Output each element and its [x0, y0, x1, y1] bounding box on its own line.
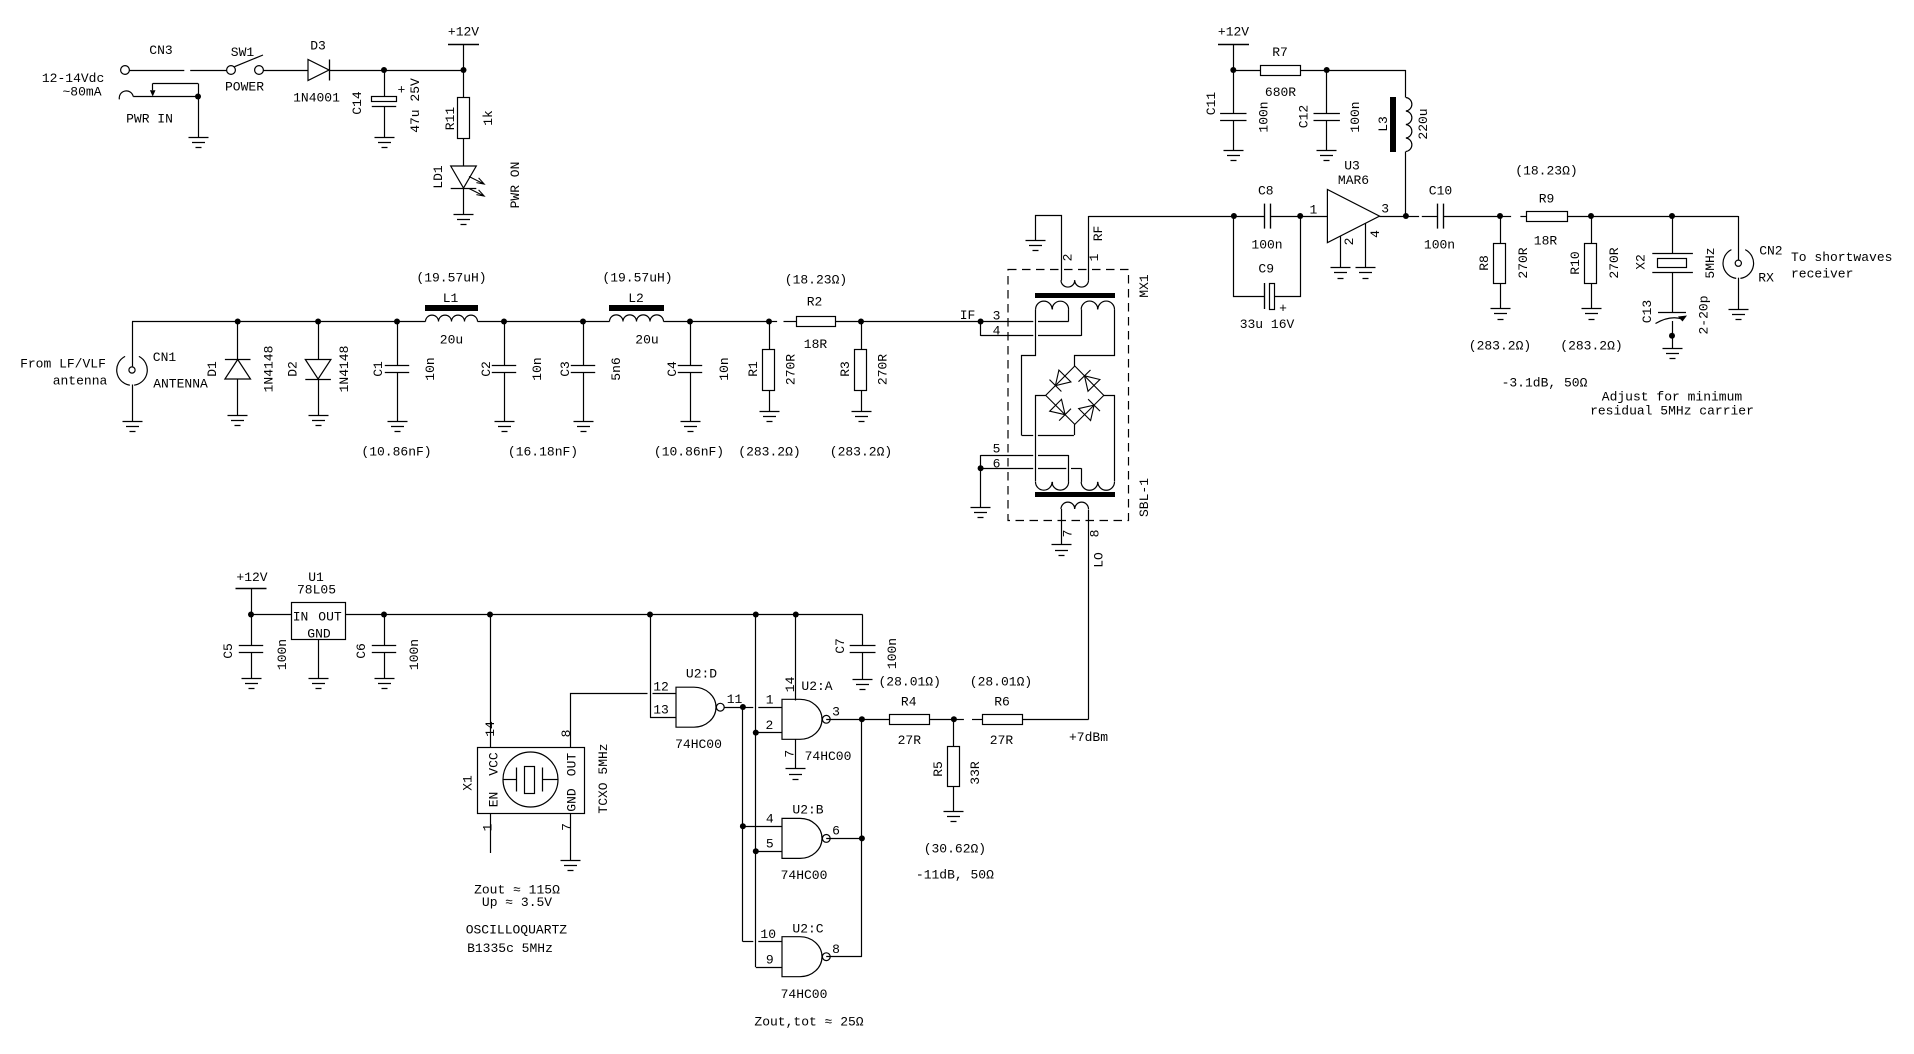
wire C8 to U3 input — [1271, 216, 1300, 218]
junction C1 — [394, 319, 400, 325]
svg-text:(283.2Ω): (283.2Ω) — [830, 445, 892, 460]
svg-text:SW1: SW1 — [231, 45, 255, 60]
svg-text:R10: R10 — [1568, 251, 1583, 274]
wire D2 to C1 — [318, 321, 397, 323]
capacitor C12 100n — [1326, 70, 1328, 114]
junction C12 tap — [1324, 67, 1330, 73]
wire X2 node to CN2 — [1672, 216, 1738, 218]
capacitor C7 100n — [862, 615, 864, 646]
svg-text:20u: 20u — [635, 333, 658, 348]
svg-text:100n: 100n — [1251, 238, 1282, 253]
svg-text:1: 1 — [766, 693, 774, 708]
ground under C1 — [388, 422, 408, 432]
junction R3 — [858, 319, 864, 325]
svg-text:8: 8 — [1088, 530, 1103, 538]
svg-text:1N4148: 1N4148 — [337, 346, 352, 393]
svg-text:1N4148: 1N4148 — [262, 346, 277, 393]
ground under C5 — [242, 679, 262, 689]
svg-text:270R: 270R — [784, 354, 799, 385]
svg-text:14: 14 — [483, 721, 498, 737]
LED LD1 PWR ON — [451, 166, 477, 188]
resistor R11 1k — [463, 70, 465, 98]
svg-text:2: 2 — [765, 718, 773, 733]
connector CN1 ANTENNA — [134, 356, 147, 385]
junction output bus mid — [859, 835, 865, 841]
ground at mixer pin 7 — [1052, 545, 1072, 556]
wire C3 to L2 — [583, 321, 610, 323]
resistor R9 18R — [1527, 212, 1568, 222]
svg-text:GND: GND — [565, 788, 580, 812]
svg-text:X1: X1 — [461, 775, 476, 791]
inductor L1 20u — [426, 315, 478, 321]
wire top-left winding left terminal down to bottom ring corner — [1022, 310, 1036, 436]
wire ring right corner to bottom-right winding — [1104, 396, 1115, 482]
junction C2 — [501, 319, 507, 325]
svg-text:+12V: +12V — [448, 25, 479, 40]
svg-text:270R: 270R — [876, 354, 891, 385]
mixer top secondary right winding — [1081, 301, 1114, 309]
wire R7 to L3 corner — [1301, 70, 1327, 72]
resistor R1 270R — [769, 322, 771, 350]
wire CN2 to ground — [1738, 278, 1740, 310]
regulator U1 78L05 — [292, 603, 346, 640]
junction +12V/C11/R7 — [1230, 67, 1236, 73]
svg-text:-3.1dB, 50Ω: -3.1dB, 50Ω — [1502, 376, 1588, 391]
junction R10 — [1588, 213, 1594, 219]
wire D3 to +12V node — [329, 70, 464, 72]
svg-text:10n: 10n — [423, 357, 438, 380]
svg-text:33R: 33R — [968, 761, 983, 785]
ground under C4 — [681, 422, 701, 432]
capacitor C8 100n — [1264, 204, 1266, 229]
ground under CN1 — [123, 422, 143, 432]
wire rail down to U2 inputs 2/5/9 — [755, 615, 757, 733]
diode D1 1N4148 — [237, 322, 239, 360]
wire R3 to IF node — [861, 321, 981, 323]
svg-text:SBL-1: SBL-1 — [1137, 478, 1152, 517]
svg-text:C9: C9 — [1258, 262, 1274, 277]
svg-text:PWR IN: PWR IN — [126, 112, 173, 127]
svg-text:~80mA: ~80mA — [62, 85, 101, 100]
wire L1 to C2 — [478, 321, 505, 323]
svg-text:R5: R5 — [931, 761, 946, 777]
wire R10 node to X2 node — [1591, 216, 1672, 218]
U1 GND pin to ground — [318, 639, 320, 678]
junction X1 VCC — [487, 612, 493, 618]
capacitor C5 100n — [251, 615, 253, 646]
svg-text:1N4001: 1N4001 — [293, 91, 340, 106]
svg-text:2-20p: 2-20p — [1697, 295, 1712, 334]
svg-text:220u: 220u — [1416, 108, 1431, 139]
wire U1 OUT rail — [345, 614, 863, 616]
resistor R7 680R — [1233, 70, 1260, 72]
svg-text:-11dB, 50Ω: -11dB, 50Ω — [916, 868, 994, 883]
wire R5 node to R6 — [954, 719, 964, 721]
junction R5 — [951, 716, 957, 722]
mixer transformer core bar (bottom) — [1035, 492, 1115, 497]
svg-text:L1: L1 — [443, 291, 459, 306]
svg-text:antenna: antenna — [53, 374, 108, 389]
ground under R3 — [852, 412, 872, 422]
capacitor C6 100n — [384, 615, 386, 646]
wire U2:B output 6 — [826, 838, 862, 840]
junction jack sleeve to ground — [195, 94, 201, 100]
svg-text:C2: C2 — [479, 361, 494, 377]
wire CN1 to IF line — [132, 322, 134, 367]
svg-text:R11: R11 — [443, 107, 458, 131]
svg-text:3: 3 — [1381, 202, 1389, 217]
svg-text:5: 5 — [766, 837, 774, 852]
svg-text:12: 12 — [653, 680, 669, 695]
wire U2:C output 8 to bus — [826, 956, 862, 958]
svg-text:C14: C14 — [350, 91, 365, 115]
resistor R3 270R — [861, 322, 863, 350]
junction C9 left — [1231, 213, 1237, 219]
junction C4 — [687, 319, 693, 325]
svg-text:(283.2Ω): (283.2Ω) — [738, 445, 800, 460]
wire ring left corner to bottom-left winding — [1036, 396, 1046, 482]
wire CN3 to SW1 — [130, 70, 185, 72]
svg-text:5MHz: 5MHz — [1703, 247, 1718, 278]
svg-text:C4: C4 — [665, 361, 680, 377]
svg-text:+7dBm: +7dBm — [1069, 730, 1108, 745]
svg-text:R7: R7 — [1272, 45, 1288, 60]
svg-text:OUT: OUT — [565, 753, 580, 777]
svg-text:27R: 27R — [898, 733, 922, 748]
svg-text:C11: C11 — [1204, 92, 1219, 116]
ground under D1 — [228, 416, 248, 426]
X1 pin 7 to ground — [570, 813, 572, 860]
svg-text:(28.01Ω): (28.01Ω) — [970, 675, 1032, 690]
inductor L3 220u — [1405, 70, 1407, 98]
svg-text:100n: 100n — [275, 639, 290, 670]
svg-text:4: 4 — [993, 324, 1001, 339]
svg-text:10n: 10n — [530, 357, 545, 380]
svg-text:100n: 100n — [1424, 238, 1455, 253]
svg-text:20u: 20u — [440, 333, 463, 348]
oscillator X1 TCXO 5MHz — [478, 748, 585, 814]
resistor R6 27R — [983, 715, 1023, 725]
ground under X1 — [561, 861, 581, 871]
svg-text:X2: X2 — [1634, 254, 1649, 270]
ground under C13 — [1663, 349, 1683, 359]
svg-text:L2: L2 — [628, 291, 644, 306]
diode ring wires — [1046, 366, 1104, 424]
svg-text:OSCILLOQUARTZ: OSCILLOQUARTZ — [466, 923, 568, 938]
svg-text:7: 7 — [783, 750, 798, 758]
svg-text:RF: RF — [1091, 226, 1106, 242]
svg-text:1: 1 — [1309, 203, 1317, 218]
svg-text:C1: C1 — [371, 361, 386, 377]
svg-text:(28.01Ω): (28.01Ω) — [878, 675, 940, 690]
svg-text:D2: D2 — [286, 361, 301, 377]
U3 pin 4 to ground — [1365, 223, 1367, 268]
ground under CN2 — [1729, 310, 1749, 320]
connector CN2 RX — [1738, 216, 1740, 260]
junction R11 node — [461, 67, 467, 73]
mixer LO winding — [1061, 502, 1089, 509]
power +12V symbol (bottom) — [236, 588, 267, 590]
junction U2 pin13 feed — [647, 612, 653, 618]
wire R2 to R3 — [835, 321, 861, 323]
wire ring bottom corner down — [1074, 424, 1076, 435]
wire jack to ground — [198, 97, 200, 138]
svg-text:C3: C3 — [558, 361, 573, 377]
svg-text:10: 10 — [760, 927, 776, 942]
ground at mixer pins 5/6 — [971, 508, 991, 518]
junction pins 5/6 to ground — [978, 465, 984, 471]
inductor L2 20u — [610, 315, 664, 322]
wire C10 to R8 node — [1444, 216, 1500, 218]
svg-text:8: 8 — [832, 942, 840, 957]
svg-text:18R: 18R — [804, 337, 828, 352]
wire top-right winding right terminal to ring top corner — [1075, 310, 1115, 367]
wire R9 to R10 node — [1567, 216, 1591, 218]
wire R1 to R2 — [769, 321, 777, 323]
wire R4 to R5 node — [930, 719, 954, 721]
svg-text:1k: 1k — [481, 110, 496, 126]
wire bus to R4 — [862, 719, 890, 721]
svg-text:OUT: OUT — [318, 610, 342, 625]
ground under C11 — [1224, 151, 1244, 161]
wire SW1 to D3 — [264, 70, 309, 72]
svg-text:C5: C5 — [221, 643, 236, 659]
X1 pin 1 EN stub — [490, 813, 492, 853]
wire rail-feed down to U2:B pin 5 — [755, 733, 757, 852]
svg-text:MAR6: MAR6 — [1338, 173, 1369, 188]
svg-text:78L05: 78L05 — [297, 583, 336, 598]
svg-text:(18.23Ω): (18.23Ω) — [785, 273, 847, 288]
svg-text:R9: R9 — [1539, 192, 1555, 207]
ground under PWR IN — [189, 138, 209, 148]
svg-text:Up ≈ 3.5V: Up ≈ 3.5V — [482, 895, 552, 910]
capacitor C9 33u 16V (electrolytic bypass) — [1234, 217, 1265, 297]
svg-text:100n: 100n — [1257, 101, 1272, 132]
gate U2:B 74HC00 — [782, 818, 822, 858]
svg-text:R1: R1 — [746, 361, 761, 377]
svg-text:47u 25V: 47u 25V — [408, 78, 423, 133]
ground under C7 — [853, 680, 873, 690]
resistor R10 270R — [1591, 216, 1593, 243]
junction X2 — [1669, 213, 1675, 219]
svg-text:270R: 270R — [1607, 247, 1622, 278]
svg-text:10n: 10n — [717, 357, 732, 380]
svg-text:TCXO 5MHz: TCXO 5MHz — [596, 743, 611, 813]
junction C5 tap — [248, 612, 254, 618]
power +12V symbol (right) — [1218, 44, 1249, 46]
svg-text:U2:D: U2:D — [686, 667, 717, 682]
wire C4 to R1 — [690, 321, 769, 323]
svg-text:+12V: +12V — [1218, 25, 1249, 40]
ground under R1 — [760, 412, 780, 422]
svg-text:(19.57uH): (19.57uH) — [416, 271, 486, 286]
capacitor C11 100n — [1233, 70, 1235, 114]
ground under R10 — [1582, 309, 1602, 320]
ring diode bottom-right — [1079, 405, 1094, 420]
svg-text:100n: 100n — [885, 638, 900, 669]
svg-text:(283.2Ω): (283.2Ω) — [1560, 339, 1622, 354]
mixer input transformer primary winding — [1061, 280, 1089, 287]
svg-text:D3: D3 — [310, 39, 326, 54]
capacitor C14 47u 25V (electrolytic) — [384, 70, 386, 97]
wire top-left winding right terminal to pin 3 — [1068, 309, 1070, 321]
wire rail down to U2:A pin 14 — [795, 615, 797, 701]
svg-text:(10.86nF): (10.86nF) — [361, 445, 431, 460]
svg-text:B1335c 5MHz: B1335c 5MHz — [467, 941, 553, 956]
junction D1 — [235, 319, 241, 325]
mixer top secondary left winding — [1036, 301, 1069, 309]
svg-text:C12: C12 — [1297, 105, 1312, 128]
svg-text:U2:B: U2:B — [792, 803, 823, 818]
svg-text:L3: L3 — [1376, 116, 1391, 132]
svg-text:+: + — [1279, 301, 1287, 316]
svg-text:R6: R6 — [994, 695, 1010, 710]
junction C3 — [580, 319, 586, 325]
svg-text:ANTENNA: ANTENNA — [153, 377, 208, 392]
junction below C13 — [1669, 333, 1675, 339]
svg-text:Zout,tot ≈ 25Ω: Zout,tot ≈ 25Ω — [754, 1015, 863, 1030]
svg-text:(10.86nF): (10.86nF) — [654, 445, 724, 460]
svg-text:2: 2 — [1342, 238, 1357, 246]
svg-text:4: 4 — [766, 812, 774, 827]
svg-text:VCC: VCC — [487, 752, 502, 776]
svg-text:6: 6 — [832, 824, 840, 839]
wire rail to X1 VCC pin 14 — [490, 615, 492, 748]
junction R1 — [766, 319, 772, 325]
connector CN3 terminal (top pin) — [121, 66, 130, 75]
svg-text:(30.62Ω): (30.62Ω) — [924, 842, 986, 857]
U3 pin 2 to ground — [1340, 236, 1342, 268]
wire CN1 to ground — [132, 385, 134, 422]
resistor R5 33R — [953, 719, 955, 746]
ground at mixer pin 2 — [1026, 241, 1046, 251]
power +12V rail symbol — [448, 44, 479, 46]
gate U2:D 74HC00 — [676, 687, 716, 727]
svg-text:27R: 27R — [990, 733, 1014, 748]
svg-text:100n: 100n — [1348, 101, 1363, 132]
junction D2 — [315, 319, 321, 325]
trimmer capacitor C13 2-20p — [1658, 312, 1686, 314]
svg-text:MX1: MX1 — [1137, 274, 1152, 298]
svg-text:+: + — [398, 83, 406, 98]
svg-text:PWR ON: PWR ON — [508, 162, 523, 209]
svg-text:LO: LO — [1092, 552, 1107, 568]
connector PWR IN barrel jack — [119, 91, 133, 100]
svg-text:4: 4 — [1368, 230, 1383, 238]
svg-text:C13: C13 — [1640, 300, 1655, 323]
ground under R5 — [944, 812, 964, 822]
svg-text:CN2: CN2 — [1759, 244, 1782, 259]
wire R8 node to R9 — [1500, 216, 1511, 218]
wire node 11 to U2:A pin 1 — [743, 707, 753, 709]
svg-text:EN: EN — [487, 792, 502, 808]
capacitor C1 10n — [397, 322, 399, 366]
svg-text:C7: C7 — [833, 638, 848, 654]
svg-text:7: 7 — [1061, 530, 1076, 538]
wire top-right winding left terminal to pin 4 — [1081, 309, 1083, 336]
svg-text:RX: RX — [1758, 271, 1774, 286]
svg-text:11: 11 — [727, 692, 743, 707]
ground under C3 — [574, 422, 594, 432]
ring diode bottom-left — [1050, 399, 1065, 414]
svg-text:3: 3 — [832, 704, 840, 719]
resistor R4 27R — [890, 715, 930, 725]
capacitor C3 5n6 — [583, 322, 585, 366]
junction C6 — [381, 612, 387, 618]
svg-text:74HC00: 74HC00 — [805, 749, 852, 764]
wire C2 to C3 — [504, 321, 583, 323]
wire D1 to D2 — [238, 321, 318, 323]
svg-text:7: 7 — [560, 823, 575, 831]
svg-text:1: 1 — [481, 823, 496, 831]
mixer bottom secondary left winding — [1036, 482, 1069, 490]
svg-text:33u 16V: 33u 16V — [1240, 317, 1295, 332]
junction U2 pin2 feed — [753, 612, 759, 618]
svg-text:+12V: +12V — [236, 570, 267, 585]
svg-text:270R: 270R — [1516, 247, 1531, 278]
svg-text:13: 13 — [653, 703, 669, 718]
svg-text:C6: C6 — [354, 643, 369, 659]
wire node 11 down to U2:B pin 4 — [742, 707, 744, 826]
mixer transformer core bar (top) — [1035, 293, 1115, 298]
svg-text:D1: D1 — [205, 361, 220, 377]
ground under R8 — [1491, 309, 1511, 320]
U2:A pin 7 to ground — [795, 739, 797, 769]
gate U2:C 74HC00 — [782, 937, 822, 977]
wire R6 to LO corner — [1022, 719, 1088, 721]
ring diode top-left — [1055, 370, 1071, 386]
svg-text:680R: 680R — [1265, 85, 1296, 100]
diode D2 1N4148 — [318, 322, 320, 360]
svg-text:R3: R3 — [838, 361, 853, 377]
svg-text:U3: U3 — [1344, 159, 1360, 174]
gate U2:A 74HC00 — [782, 699, 822, 739]
switch SW1 POWER — [227, 66, 236, 75]
svg-text:(283.2Ω): (283.2Ω) — [1469, 339, 1531, 354]
resistor R2 18R — [797, 317, 836, 327]
junction U2 pin14 feed — [793, 612, 799, 618]
svg-text:100n: 100n — [407, 639, 422, 670]
svg-text:R4: R4 — [901, 695, 917, 710]
capacitor C2 10n — [504, 322, 506, 366]
wire L2 to C4 — [664, 321, 691, 323]
svg-text:U2:C: U2:C — [792, 922, 823, 937]
svg-text:C10: C10 — [1429, 184, 1452, 199]
svg-text:C8: C8 — [1258, 184, 1274, 199]
svg-text:(16.18nF): (16.18nF) — [508, 445, 578, 460]
ground under C2 — [495, 422, 515, 432]
svg-text:74HC00: 74HC00 — [781, 987, 828, 1002]
mixer MX1 SBL-1 dashed outline — [1008, 270, 1129, 521]
svg-text:18R: 18R — [1534, 234, 1558, 249]
svg-text:8: 8 — [559, 730, 574, 738]
wire C1 to L1 — [397, 321, 426, 323]
svg-text:5n6: 5n6 — [609, 357, 624, 380]
wire U2:D output 11 — [725, 707, 743, 709]
wire node 11 down to U2:C pin 10 — [742, 826, 744, 941]
svg-text:5: 5 — [993, 442, 1001, 457]
svg-text:receiver: receiver — [1791, 267, 1853, 282]
svg-text:residual 5MHz carrier: residual 5MHz carrier — [1590, 404, 1754, 419]
crystal X2 5MHz — [1672, 216, 1674, 254]
wire U2:A output 3 — [826, 719, 862, 721]
svg-text:IF: IF — [960, 308, 976, 323]
wire U3 output to L3 node — [1380, 216, 1406, 218]
svg-text:(19.57uH): (19.57uH) — [602, 271, 672, 286]
svg-text:14: 14 — [783, 676, 798, 692]
resistor R8 270R — [1500, 216, 1502, 243]
wire +12V to U1 IN — [251, 614, 291, 616]
